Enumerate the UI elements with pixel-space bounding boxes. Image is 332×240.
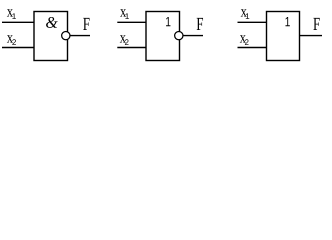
inversion bubble U1 [62,31,70,39]
wire x2 input U1 [2,47,34,49]
wire x1 input U1 [2,21,34,23]
node label F (U2) [197,18,203,30]
node label F (U3) [313,18,319,30]
subscript 2 of x2 (U1) [12,39,16,45]
node label x2 (U2) [120,35,126,42]
wire x1 input U3 [238,21,267,23]
function label &amp; (U1) [46,17,58,28]
subscript 1 of x1 (U3) [246,13,249,19]
subscript 2 of x2 (U3) [245,39,249,45]
node label x2 (U3) [240,35,246,42]
node label x1 (U3) [241,9,247,16]
node label F (U1) [83,18,89,30]
subscript 1 of x1 (U1) [12,13,15,19]
inversion bubble U2 [175,31,183,39]
wire x2 input U2 [117,47,146,49]
node label x1 (U2) [120,9,126,16]
node label x1 (U1) [7,9,13,16]
wire output U2 [183,35,203,37]
wire output U1 [70,35,90,37]
gate body U3 [267,12,300,61]
subscript 2 of x2 (U2) [125,39,129,45]
function label 1 (U2) [166,17,170,26]
gate body U1 [34,12,68,61]
node label x2 (U1) [7,35,13,42]
gate body U2 [146,12,180,61]
wire output U3 [300,35,323,37]
wire x2 input U3 [238,47,267,49]
function label 1 (U3) [285,17,289,26]
subscript 1 of x1 (U2) [125,13,128,19]
wire x1 input U2 [117,21,146,23]
